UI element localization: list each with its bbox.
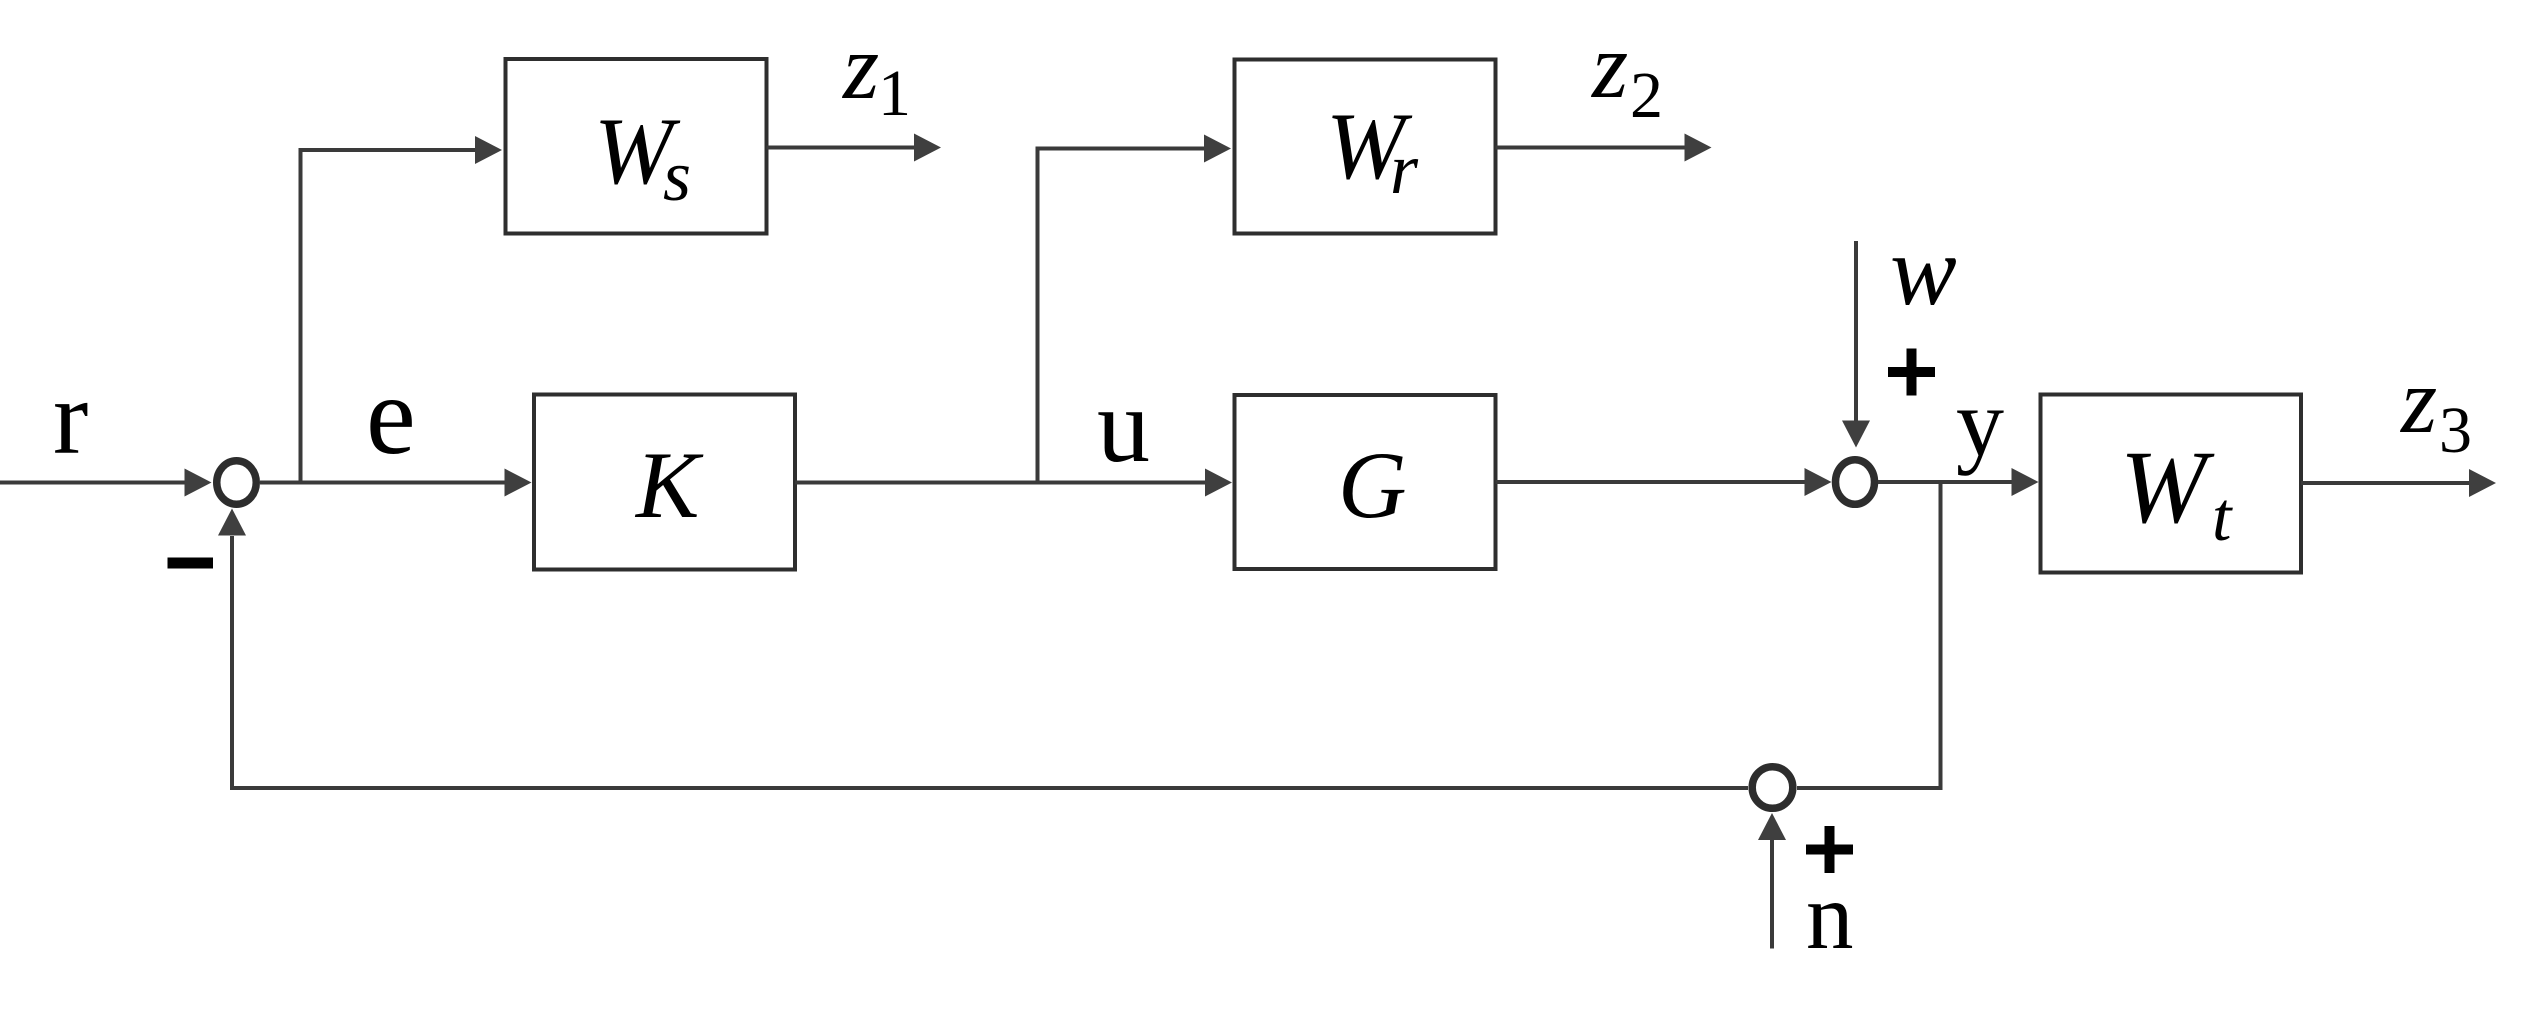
svg-text:K: K xyxy=(634,432,704,538)
arrowhead into G xyxy=(1205,469,1232,497)
svg-text:n: n xyxy=(1806,863,1854,969)
arrowhead z1 output xyxy=(914,134,941,162)
svg-text:w: w xyxy=(1890,215,1957,326)
arrowhead z2 output xyxy=(1685,134,1712,162)
arrowhead into Ws xyxy=(475,136,502,164)
summing junction S3 xyxy=(1752,767,1793,809)
plus sign at S3 xyxy=(1806,826,1853,873)
arrowhead into Wr xyxy=(1204,135,1231,163)
block Ws xyxy=(506,59,767,234)
block Wr xyxy=(1235,60,1496,234)
wire K to G xyxy=(795,481,1205,485)
wire y from S2 to Wt xyxy=(1878,480,2012,484)
minus sign at S1 xyxy=(168,558,214,569)
block G xyxy=(1235,395,1496,569)
wire n input xyxy=(1770,840,1774,949)
arrowhead into summing junction S1 xyxy=(185,469,212,497)
block Wt xyxy=(2041,395,2302,573)
svg-text:2: 2 xyxy=(1630,59,1663,132)
svg-text:y: y xyxy=(1956,369,2004,476)
wire branch u up to Wr xyxy=(1038,149,1205,482)
wire G to summing junction S2 xyxy=(1496,480,1809,484)
arrowhead z3 output xyxy=(2469,469,2496,497)
summing junction S1 xyxy=(217,461,257,505)
wire feedback from S3 to S1 xyxy=(232,536,1748,788)
svg-text:W: W xyxy=(2120,430,2215,545)
svg-text:r: r xyxy=(53,359,88,476)
svg-text:e: e xyxy=(366,354,416,478)
svg-text:t: t xyxy=(2212,479,2233,556)
wire Ws to z1 xyxy=(767,146,915,150)
wire y branch down to feedback junction S3 xyxy=(1797,484,1941,788)
plus sign at S2 xyxy=(1888,349,1935,396)
arrowhead into K xyxy=(505,469,532,497)
wire branch e up to Ws xyxy=(301,150,477,481)
svg-text:z: z xyxy=(1590,15,1628,118)
svg-text:z: z xyxy=(2399,350,2437,453)
arrowhead feedback into S1 xyxy=(218,509,246,536)
svg-text:r: r xyxy=(1390,129,1419,209)
wire Wt to z3 xyxy=(2301,481,2470,485)
arrowhead into S2 xyxy=(1805,468,1832,496)
svg-text:s: s xyxy=(663,136,691,216)
arrowhead n into S3 xyxy=(1758,813,1786,840)
svg-text:G: G xyxy=(1338,432,1407,538)
wire Wr to z2 xyxy=(1496,146,1686,150)
summing junction S2 xyxy=(1836,460,1875,505)
svg-text:u: u xyxy=(1097,367,1150,484)
arrowhead w into S2 xyxy=(1842,421,1870,448)
svg-text:3: 3 xyxy=(2439,394,2472,467)
block K xyxy=(534,395,795,570)
svg-text:1: 1 xyxy=(878,57,911,130)
wire w input xyxy=(1854,241,1858,421)
wire r input xyxy=(0,481,186,485)
wire e from S1 to K xyxy=(260,481,505,485)
svg-text:z: z xyxy=(841,16,879,119)
arrowhead into Wt xyxy=(2012,468,2039,496)
